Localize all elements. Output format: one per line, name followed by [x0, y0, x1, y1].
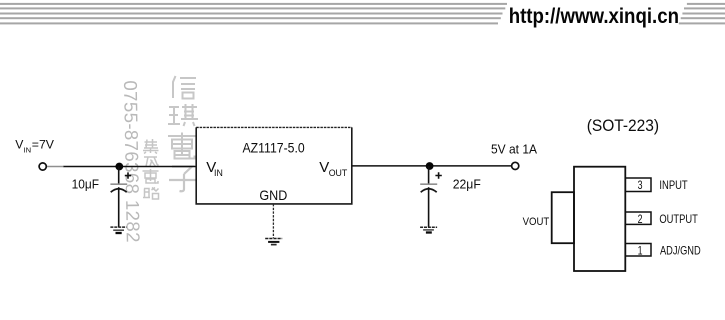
- svg-text:IN: IN: [24, 146, 32, 155]
- pin label VIN: [206, 159, 223, 178]
- capacitor C1 10uF: [110, 167, 131, 228]
- watermark big char 子: [169, 167, 197, 192]
- pin 2 rect: [625, 212, 651, 224]
- capacitor C2 22uF: [420, 166, 442, 227]
- svg-text:http://www.xinqi.cn: http://www.xinqi.cn: [509, 4, 679, 28]
- watermark small char 集: [143, 139, 159, 154]
- svg-text:1: 1: [638, 243, 643, 257]
- svg-text:AZ1117-5.0: AZ1117-5.0: [243, 139, 305, 155]
- watermark big char 琪: [168, 104, 198, 126]
- svg-text:=7V: =7V: [32, 137, 55, 151]
- pin label VOUT: [319, 159, 348, 178]
- watermark small char 成: [144, 157, 159, 167]
- SOT-223 package body: [574, 167, 625, 271]
- SOT-223 tab VOUT: [552, 192, 574, 243]
- svg-text:22μF: 22μF: [453, 177, 481, 191]
- output terminal circle: [512, 162, 519, 169]
- svg-text:OUT: OUT: [329, 168, 348, 178]
- banner stripes right block: [679, 3, 725, 25]
- watermark small char 電: [143, 169, 159, 183]
- wire GND pin to ground (dashed): [272, 204, 274, 238]
- wire output run: [352, 165, 512, 167]
- svg-text:2: 2: [638, 212, 643, 226]
- svg-text:10μF: 10μF: [72, 177, 100, 191]
- ground (C2): [420, 227, 437, 232]
- svg-text:GND: GND: [259, 187, 287, 203]
- svg-text:3: 3: [638, 178, 643, 192]
- node input junction: [115, 163, 123, 171]
- ground (C1): [110, 227, 126, 233]
- label VIN=7V: [15, 137, 54, 154]
- wire input terminal to junction (gray lead-in): [47, 166, 64, 168]
- svg-text:ADJ/GND: ADJ/GND: [660, 244, 701, 257]
- watermark small char 路: [143, 188, 159, 200]
- pin 1 rect: [625, 244, 651, 257]
- node output junction: [426, 162, 434, 170]
- wire input run to regulator: [64, 166, 197, 168]
- svg-text:5V at 1A: 5V at 1A: [491, 142, 538, 156]
- ground (U1): [265, 239, 282, 245]
- banner stripes left block: [0, 3, 507, 25]
- svg-text:INPUT: INPUT: [659, 179, 687, 192]
- pin 3 rect: [625, 178, 651, 192]
- svg-text:OUTPUT: OUTPUT: [659, 213, 698, 226]
- watermark big char 電: [168, 133, 196, 159]
- input terminal circle: [39, 163, 46, 170]
- watermark big char 信: [173, 76, 196, 99]
- regulator U1 AZ1117-5.0 box: [196, 127, 352, 203]
- svg-text:VOUT: VOUT: [523, 216, 550, 228]
- svg-text:IN: IN: [214, 168, 223, 178]
- svg-text:(SOT-223): (SOT-223): [587, 117, 659, 135]
- svg-text:0755-876368 1282: 0755-876368 1282: [120, 80, 144, 243]
